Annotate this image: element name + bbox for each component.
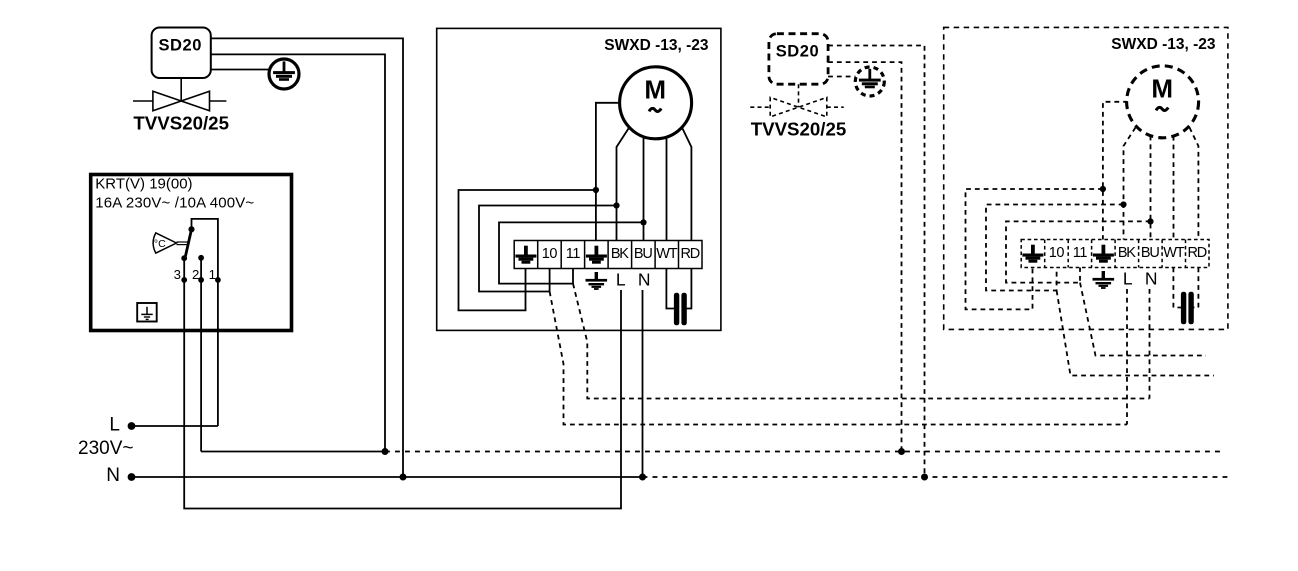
terminal earth symbol cell4 (fan 2)	[1093, 245, 1114, 263]
wire WT to capacitor (fan 2)	[1173, 268, 1182, 308]
wire loop A ground (fan 2)	[966, 189, 1103, 309]
wire motor WT (fan 1)	[666, 137, 668, 241]
svg-text:TVVS20/25: TVVS20/25	[133, 112, 229, 133]
wire motor BK (fan 1)	[617, 129, 629, 241]
terminal earth symbol cell4 (fan 1)	[586, 246, 607, 264]
wire SD20-right top to N bus (dashed)	[828, 46, 924, 478]
wire L bus	[132, 425, 218, 427]
wire N bus dashed part	[643, 476, 1232, 478]
junction dot loop B (fan 2)	[1120, 201, 1126, 207]
motor M~ circle (fan 2)	[1127, 66, 1199, 138]
wire loop B to 10 (fan 2)	[986, 205, 1124, 291]
wire loop C to 11 (fan 1)	[499, 222, 644, 283]
junction dot loop B (fan 1)	[613, 202, 619, 208]
svg-text:BU: BU	[1141, 245, 1159, 261]
link sensor to switch	[177, 242, 190, 245]
terminal strip (fan 2)	[1021, 240, 1209, 268]
svg-text:TVVS20/25: TVVS20/25	[751, 119, 847, 140]
wire 230V bus solid part	[201, 451, 385, 453]
contact dot 3	[181, 255, 187, 261]
label ~ (fan 1)	[649, 108, 661, 111]
protective earth circle (right unit)	[855, 67, 884, 96]
wire N bus solid part	[132, 476, 643, 478]
junction dot loop C (fan 1)	[640, 219, 646, 225]
svg-text:11: 11	[1073, 245, 1088, 261]
terminal dot 1	[215, 277, 221, 283]
svg-text:BU: BU	[634, 246, 652, 262]
junction dot 230V/SD20-right	[898, 448, 905, 455]
wire motor BK (fan 2)	[1124, 128, 1136, 240]
svg-text:BK: BK	[1118, 245, 1136, 261]
wire SD20-right mid to 230V bus (dashed)	[828, 62, 901, 451]
actuator SD20 box (right unit)	[769, 34, 828, 84]
svg-text:M: M	[1151, 74, 1173, 104]
svg-text:16A 230V~ /10A 400V~: 16A 230V~ /10A 400V~	[95, 194, 254, 211]
sensor bulb °C	[153, 233, 176, 253]
wire RD to capacitor (fan 1)	[686, 269, 692, 309]
svg-text:N: N	[1145, 268, 1158, 288]
wire fan2 terminal 11 continuation (dashed)	[1080, 283, 1206, 356]
svg-text:10: 10	[542, 246, 558, 262]
capacitor plate left (fan 1)	[674, 293, 679, 326]
svg-text:M: M	[644, 75, 666, 105]
svg-text:RD: RD	[1188, 245, 1207, 261]
node L supply dot	[128, 422, 136, 430]
terminal earth symbol cell1 (fan 1)	[515, 246, 536, 264]
wire motor to ground terminal (fan 1)	[596, 103, 621, 241]
svg-text:SD20: SD20	[776, 43, 819, 61]
junction dot 230V/SD20-left	[382, 448, 389, 455]
wire motor RD (fan 1)	[683, 129, 692, 241]
wire SD20-left top to N bus	[211, 38, 403, 477]
svg-text:°C: °C	[154, 238, 166, 250]
svg-text:L: L	[109, 415, 120, 436]
wire motor RD (fan 2)	[1190, 128, 1199, 240]
node N supply dot	[128, 473, 136, 481]
capacitor plate right (fan 1)	[681, 293, 686, 326]
wire fan2 terminal 10 continuation (dashed)	[1057, 291, 1214, 376]
wire terminal 2 to 230V bus	[200, 258, 202, 452]
wire fan1 terminal 10 to fan2 L (dashed)	[550, 292, 1127, 425]
fan unit SWXD enclosure box (fan 1)	[437, 28, 721, 330]
svg-text:2: 2	[192, 267, 199, 282]
svg-text:L: L	[1123, 268, 1133, 288]
earth symbol below strip (fan 2)	[1093, 271, 1115, 289]
contact dot 2	[198, 255, 204, 261]
svg-text:SWXD -13, -23: SWXD -13, -23	[604, 37, 709, 54]
fan unit SWXD enclosure box (fan 2)	[944, 27, 1228, 329]
svg-text:L: L	[616, 269, 626, 289]
switch pivot dot	[188, 226, 194, 232]
junction dot loop A (fan 1)	[593, 187, 599, 193]
svg-text:3: 3	[174, 267, 181, 282]
svg-text:SWXD -13, -23: SWXD -13, -23	[1111, 36, 1216, 53]
earth symbol below strip (fan 1)	[586, 272, 608, 290]
terminal strip (fan 1)	[514, 241, 702, 269]
wire WT to capacitor (fan 1)	[666, 269, 675, 309]
capacitor plate left (fan 2)	[1181, 292, 1186, 325]
label ~ (fan 2)	[1156, 107, 1168, 110]
wire SD20-left mid to 230V bus	[211, 54, 385, 451]
wire loop B to 10 (fan 1)	[479, 206, 617, 292]
wire fan2 N stub (dashed)	[1149, 289, 1151, 399]
valve TVVS20/25 symbol (left unit)	[133, 78, 226, 111]
wire fan1 N stub to N bus	[642, 290, 644, 477]
wire SD20-left to earth circle	[211, 69, 270, 71]
valve TVVS20/25 symbol (right unit)	[750, 84, 843, 117]
svg-text:RD: RD	[681, 246, 700, 262]
wire motor BU (fan 2)	[1150, 136, 1152, 240]
svg-text:WT: WT	[656, 246, 677, 262]
svg-text:WT: WT	[1163, 245, 1184, 261]
svg-text:230V~: 230V~	[78, 438, 133, 459]
wire pivot to terminal 1 and L bus	[192, 219, 218, 426]
wire SD20-right to earth circle (dashed)	[828, 76, 855, 78]
actuator SD20 box (left unit)	[152, 28, 211, 79]
svg-text:11: 11	[566, 246, 581, 262]
svg-text:SD20: SD20	[158, 36, 201, 54]
thermostat KRT box	[91, 175, 292, 331]
svg-text:N: N	[638, 269, 651, 289]
svg-text:10: 10	[1049, 245, 1065, 261]
wire RD to capacitor (fan 2)	[1193, 268, 1199, 308]
svg-text:N: N	[106, 465, 120, 486]
wire loop C to 11 (fan 2)	[1006, 221, 1151, 282]
terminal dot 3	[181, 277, 187, 283]
wire motor BU (fan 1)	[643, 137, 645, 241]
wire fan1 terminal 11 to fan2 N (dashed)	[573, 284, 1150, 399]
junction dot N/fan1-N	[639, 474, 646, 481]
svg-text:KRT(V) 19(00): KRT(V) 19(00)	[95, 175, 192, 192]
wire loop A ground (fan 1)	[459, 190, 596, 310]
wire motor to ground terminal (fan 2)	[1103, 102, 1128, 240]
junction dot N/SD20-left	[400, 474, 407, 481]
switch lever	[185, 229, 191, 256]
terminal dot 2	[198, 277, 204, 283]
junction dot N/SD20-right	[921, 474, 928, 481]
wire fan2 L stub (dashed)	[1126, 289, 1128, 425]
wire 230V bus dashed part	[385, 451, 1225, 453]
junction dot loop C (fan 2)	[1147, 218, 1153, 224]
svg-text:1: 1	[209, 267, 216, 282]
protective earth circle (left unit)	[269, 59, 299, 89]
svg-text:BK: BK	[611, 246, 629, 262]
motor M~ circle (fan 1)	[620, 67, 692, 139]
capacitor plate right (fan 2)	[1188, 292, 1193, 325]
wire terminal 3 bottom loop to fan1 L	[184, 258, 621, 508]
junction dot loop A (fan 2)	[1100, 186, 1106, 192]
terminal earth symbol cell1 (fan 2)	[1022, 245, 1043, 263]
KRT earth terminal box	[137, 303, 157, 322]
wire motor WT (fan 2)	[1173, 136, 1175, 240]
